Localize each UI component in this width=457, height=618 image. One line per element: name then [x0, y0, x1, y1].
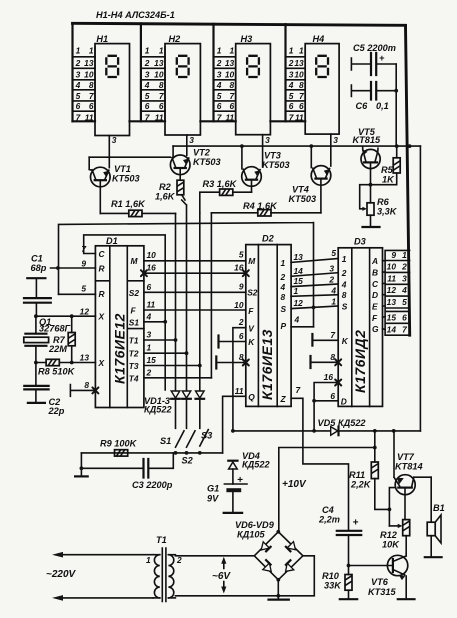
svg-text:C5 2200m: C5 2200m [353, 43, 396, 53]
svg-text:P: P [281, 321, 287, 331]
svg-text:8: 8 [299, 80, 304, 90]
wire bridge left to secondary [175, 555, 254, 557]
svg-text:13: 13 [294, 58, 304, 68]
svg-text:VT6: VT6 [371, 577, 389, 587]
svg-text:10: 10 [225, 70, 235, 80]
resistor R5 1K [371, 146, 397, 185]
svg-text:X: X [98, 312, 105, 322]
svg-text:KT503: KT503 [262, 160, 290, 170]
svg-text:2,2K: 2,2K [350, 480, 372, 490]
svg-text:22p: 22p [48, 406, 65, 416]
svg-text:5: 5 [289, 91, 294, 101]
svg-text:7: 7 [76, 113, 81, 123]
svg-text:T3: T3 [129, 361, 139, 371]
svg-text:6: 6 [239, 331, 244, 341]
wire D1.11 F to D2.10 F [144, 309, 246, 311]
svg-text:2: 2 [288, 58, 294, 68]
transistor VT2 KT503 [170, 155, 190, 175]
svg-text:7: 7 [145, 113, 150, 123]
svg-text:S: S [281, 304, 287, 314]
wire main horizontal rail y146 [173, 145, 420, 147]
svg-text:S2: S2 [247, 288, 258, 298]
svg-text:R: R [99, 289, 105, 299]
svg-text:11: 11 [225, 113, 234, 123]
svg-text:1: 1 [342, 254, 347, 264]
transformer T1 secondary winding [168, 554, 175, 556]
tick D3 pin8 [309, 356, 311, 368]
svg-text:К176ИД2: К176ИД2 [352, 330, 368, 393]
svg-text:Z: Z [280, 394, 287, 404]
bridge rectifier VD6-VD9 [254, 532, 303, 580]
svg-text:VT4: VT4 [292, 185, 309, 195]
svg-text:T4: T4 [129, 373, 139, 383]
svg-text:КД522: КД522 [242, 460, 271, 470]
svg-text:3: 3 [112, 135, 117, 145]
svg-text:9V: 9V [207, 494, 219, 504]
svg-text:KT814: KT814 [395, 462, 423, 472]
svg-text:F: F [131, 306, 137, 316]
svg-text:12: 12 [387, 285, 397, 295]
svg-text:4: 4 [280, 282, 286, 292]
svg-text:4: 4 [341, 280, 347, 290]
switch S2 [187, 431, 196, 447]
transformer T1 primary winding [153, 554, 160, 556]
wire D2.15 to D3.2 [291, 284, 338, 287]
svg-text:3: 3 [189, 135, 194, 145]
svg-text:7: 7 [330, 330, 335, 340]
svg-text:32768Г: 32768Г [39, 324, 71, 334]
svg-text:7: 7 [230, 91, 235, 101]
svg-text:S: S [342, 302, 348, 312]
svg-text:3: 3 [289, 70, 294, 80]
wire D1.4 S1 stub [144, 321, 165, 323]
display H2 body [165, 44, 200, 135]
svg-text:2,2m: 2,2m [318, 515, 340, 525]
svg-text:~6V: ~6V [212, 571, 231, 582]
svg-text:G: G [372, 324, 379, 334]
diode VD9 [286, 563, 294, 571]
wire chain R1 to VD1 [175, 213, 177, 391]
svg-text:10: 10 [147, 250, 157, 260]
svg-text:6: 6 [159, 101, 164, 111]
svg-text:11: 11 [147, 300, 156, 310]
svg-text:3: 3 [333, 135, 338, 145]
diode VD3 KD522 [196, 391, 205, 398]
svg-text:KT503: KT503 [289, 194, 317, 204]
svg-text:C6: C6 [356, 101, 369, 111]
svg-text:G1: G1 [207, 484, 219, 494]
svg-text:Н1-Н4 АЛС324Б-1: Н1-Н4 АЛС324Б-1 [96, 10, 175, 20]
svg-text:7: 7 [217, 113, 222, 123]
ground bridge bottom [277, 580, 279, 596]
svg-text:VT3: VT3 [264, 151, 281, 161]
svg-text:2: 2 [216, 58, 222, 68]
svg-text:8: 8 [330, 352, 335, 362]
svg-text:S3: S3 [201, 431, 212, 441]
svg-text:R6: R6 [377, 197, 390, 207]
svg-text:K: K [248, 337, 255, 347]
transistor VT1 KT503 [91, 167, 111, 187]
svg-text:2: 2 [144, 58, 150, 68]
svg-text:11: 11 [235, 386, 244, 396]
svg-text:1: 1 [299, 46, 304, 56]
svg-text:10: 10 [294, 70, 304, 80]
display H3 pin table [235, 47, 237, 121]
svg-text:+10V: +10V [282, 479, 307, 490]
svg-text:8: 8 [84, 380, 89, 390]
svg-text:1: 1 [331, 297, 336, 307]
svg-text:13: 13 [225, 58, 235, 68]
svg-text:15: 15 [147, 355, 157, 365]
wire mains bottom with arrow [62, 597, 153, 599]
svg-text:7: 7 [89, 91, 94, 101]
svg-text:16: 16 [147, 263, 157, 273]
svg-text:5: 5 [81, 284, 86, 294]
svg-text:5: 5 [76, 91, 81, 101]
svg-text:1: 1 [289, 46, 294, 56]
svg-text:R3 1,6K: R3 1,6K [203, 179, 238, 189]
tick D3 pin7 K [311, 334, 313, 346]
wire D1 pin7 C bracket [84, 235, 166, 390]
svg-text:13: 13 [80, 353, 90, 363]
svg-text:2: 2 [401, 262, 407, 272]
svg-text:10: 10 [234, 300, 244, 310]
svg-text:К176ИЕ12: К176ИЕ12 [112, 313, 128, 384]
svg-text:9: 9 [239, 282, 244, 292]
svg-text:КД105: КД105 [237, 530, 266, 540]
wire D1.1 T2 [144, 352, 187, 354]
svg-text:13: 13 [294, 252, 304, 262]
wire battery rail y431 [233, 430, 421, 432]
wires D3 outputs to table [383, 261, 386, 330]
svg-text:8: 8 [281, 292, 286, 302]
display block borders [71, 23, 73, 121]
wire C5/C6 right vertical to rail [395, 64, 398, 146]
svg-text:4: 4 [144, 80, 150, 90]
wire +10V rail [279, 448, 375, 532]
display H1 digit 8 [106, 56, 118, 77]
svg-text:6: 6 [147, 282, 152, 292]
svg-text:68p: 68p [31, 263, 47, 273]
transistor VT3 KT503 [242, 167, 262, 187]
svg-text:4: 4 [330, 285, 336, 295]
svg-text:4: 4 [75, 80, 81, 90]
svg-text:7: 7 [296, 385, 301, 395]
wire D2.14 to D3.3 [291, 273, 338, 277]
svg-text:11: 11 [155, 113, 164, 123]
svg-text:~220V: ~220V [46, 569, 77, 580]
wire mains top with arrow [62, 554, 153, 556]
svg-text:Q: Q [248, 392, 255, 402]
display H3 digit 8 [247, 56, 259, 77]
svg-text:+: + [379, 53, 385, 63]
wire H4 pin 3 stub [330, 134, 332, 166]
wire D2.4 P tap [291, 326, 313, 328]
diode VD6 [261, 542, 269, 550]
svg-text:3: 3 [76, 70, 81, 80]
svg-text:S2: S2 [182, 456, 194, 466]
svg-text:M: M [131, 256, 139, 266]
svg-text:3: 3 [329, 263, 334, 273]
svg-text:1K: 1K [382, 175, 395, 185]
svg-text:D2: D2 [262, 234, 275, 244]
diode VD2 KD522 [182, 391, 191, 398]
svg-text:11: 11 [387, 273, 396, 283]
svg-text:R11: R11 [349, 470, 365, 480]
svg-text:1: 1 [294, 286, 299, 296]
svg-text:3: 3 [217, 70, 222, 80]
diode VD7 [287, 542, 295, 550]
svg-text:7: 7 [299, 91, 304, 101]
svg-text:12: 12 [294, 298, 304, 308]
resistor R11 2,2K [375, 431, 390, 510]
svg-text:1: 1 [76, 46, 81, 56]
wire D3 pin6 D [314, 400, 338, 402]
svg-text:3: 3 [147, 330, 152, 340]
svg-text:11: 11 [85, 113, 94, 123]
wire chain R4 to T4 [210, 213, 212, 378]
svg-text:1,6K: 1,6K [155, 192, 176, 202]
svg-text:KT315: KT315 [368, 587, 396, 597]
svg-text:1: 1 [402, 250, 407, 260]
display H2 digit 8 [177, 56, 189, 77]
transistor VT4 KT503 [311, 166, 331, 186]
wire D2 pin7 Z [291, 398, 348, 530]
wire D1.10 M to D2.5 M [144, 260, 246, 262]
svg-text:6: 6 [299, 101, 304, 111]
wire top long y223 [59, 223, 314, 327]
wire D2.1 to D3.4 [291, 295, 338, 297]
svg-text:2: 2 [328, 275, 334, 285]
svg-text:C1: C1 [31, 254, 43, 264]
svg-text:1: 1 [159, 46, 164, 56]
svg-text:2: 2 [280, 272, 286, 282]
wire D1 pin9 R [51, 267, 96, 269]
svg-text:C3 2200p: C3 2200p [132, 480, 173, 490]
svg-text:D: D [372, 290, 378, 300]
svg-text:VT2: VT2 [193, 148, 211, 158]
svg-text:10: 10 [154, 70, 164, 80]
wire right rail drop x420 [419, 146, 421, 431]
svg-text:10: 10 [84, 70, 94, 80]
wire D2.12 S to D3.1 S [291, 306, 338, 309]
wire D1 pin13 X with R8 [36, 362, 96, 364]
svg-text:R: R [99, 264, 105, 274]
svg-text:5: 5 [402, 297, 407, 307]
diode VD8 [263, 563, 271, 571]
svg-text:T2: T2 [129, 349, 139, 359]
wire D2 pin11 Q [223, 396, 246, 453]
wire D1.16 to D2.16 [144, 272, 246, 274]
svg-text:4: 4 [146, 311, 152, 321]
switch S1 [176, 431, 185, 447]
svg-text:H2: H2 [169, 34, 182, 44]
svg-text:R9 100K: R9 100K [100, 439, 138, 449]
display H1 body [95, 44, 130, 136]
svg-text:KT815: KT815 [353, 135, 381, 145]
display H2 pin table [164, 47, 166, 121]
svg-text:B1: B1 [433, 503, 445, 513]
display block bottom edges [73, 120, 306, 122]
svg-text:A: A [371, 256, 378, 266]
display H4 body [305, 44, 339, 135]
svg-text:22M: 22M [48, 344, 67, 354]
svg-text:H4: H4 [313, 34, 325, 44]
svg-text:6: 6 [402, 313, 407, 323]
svg-text:8: 8 [89, 80, 94, 90]
svg-text:6: 6 [330, 391, 335, 401]
resistor R8 510K [46, 359, 59, 365]
wire H3 pin 3 stub [262, 135, 264, 167]
svg-text:VT1: VT1 [114, 164, 131, 174]
svg-text:6: 6 [89, 101, 94, 111]
svg-text:9: 9 [81, 259, 86, 269]
svg-text:10K: 10K [382, 540, 400, 550]
svg-text:33K: 33K [324, 581, 342, 591]
wire D1 pin12 X [36, 315, 96, 317]
svg-text:16: 16 [324, 372, 334, 382]
transformer T1 core [162, 548, 166, 602]
svg-text:15: 15 [387, 313, 397, 323]
svg-text:10: 10 [387, 262, 397, 272]
ground under R6 [363, 226, 380, 228]
capacitor C6 [351, 85, 396, 97]
svg-text:1: 1 [147, 343, 152, 353]
svg-text:11: 11 [295, 113, 304, 123]
svg-text:2: 2 [146, 367, 152, 377]
display H4 digit 8 [316, 56, 328, 77]
svg-text:D3: D3 [354, 237, 366, 247]
svg-text:R5: R5 [381, 165, 394, 175]
svg-text:R12: R12 [380, 530, 398, 540]
svg-text:H1: H1 [96, 34, 108, 44]
wire D1 pin8 [70, 385, 95, 397]
svg-text:5: 5 [239, 250, 244, 260]
capacitor C2 22p [35, 363, 37, 403]
display assembly frame top line [73, 23, 406, 25]
svg-text:F: F [372, 313, 378, 323]
wire chain R2 to VD2 [182, 200, 187, 391]
svg-text:4: 4 [216, 80, 222, 90]
svg-text:15: 15 [294, 276, 304, 286]
svg-text:S1: S1 [160, 436, 171, 446]
svg-text:T1: T1 [129, 336, 139, 346]
svg-text:7: 7 [289, 113, 294, 123]
svg-text:S1: S1 [129, 317, 140, 327]
svg-text:13: 13 [154, 58, 164, 68]
svg-text:8: 8 [230, 80, 235, 90]
svg-text:1: 1 [217, 46, 222, 56]
svg-text:R2: R2 [159, 182, 172, 192]
svg-text:R8 510K: R8 510K [38, 367, 76, 377]
switch S3 [200, 430, 209, 446]
svg-text:S2: S2 [129, 288, 140, 298]
svg-text:6: 6 [145, 101, 150, 111]
svg-text:3: 3 [265, 135, 270, 145]
svg-text:C: C [372, 279, 379, 289]
svg-text:+: + [353, 518, 359, 529]
wire D1.2 T4 [144, 377, 212, 379]
wire chain R3 to VD3 [199, 213, 201, 391]
svg-text:K: K [342, 336, 349, 346]
svg-text:12: 12 [80, 307, 90, 317]
svg-text:14: 14 [387, 324, 397, 334]
svg-text:6: 6 [217, 101, 222, 111]
svg-text:2: 2 [341, 268, 347, 278]
svg-text:К176ИЕ13: К176ИЕ13 [259, 329, 275, 400]
wire H1 pin 3 stub [108, 136, 110, 168]
diode VD1 KD522 [171, 391, 180, 398]
svg-text:2: 2 [75, 58, 81, 68]
svg-text:7: 7 [402, 324, 407, 334]
svg-text:1: 1 [89, 46, 94, 56]
capacitor C3 2200p [81, 453, 173, 476]
svg-text:5: 5 [217, 91, 222, 101]
svg-text:14: 14 [294, 266, 304, 276]
svg-text:3,3K: 3,3K [377, 207, 398, 217]
display H3 body [236, 44, 271, 135]
svg-text:R1 1,6K: R1 1,6K [111, 199, 146, 209]
svg-text:6: 6 [289, 101, 294, 111]
wire D3 pin16 [314, 383, 338, 431]
svg-text:T1: T1 [156, 535, 167, 545]
wire D2.13 to D3.5 [291, 259, 338, 263]
svg-text:5: 5 [331, 248, 336, 258]
svg-text:M: M [248, 256, 256, 266]
svg-text:8: 8 [342, 290, 347, 300]
IC D3 output pin table [385, 250, 410, 335]
svg-text:8: 8 [159, 80, 164, 90]
svg-text:4: 4 [401, 285, 407, 295]
wire D1 pin5 R [59, 293, 96, 295]
svg-text:2: 2 [238, 317, 244, 327]
wire switch common [81, 452, 222, 454]
svg-text:C: C [99, 249, 106, 259]
svg-text:5: 5 [145, 91, 150, 101]
wire D1.15 T3 [144, 365, 200, 367]
svg-text:9: 9 [391, 250, 396, 260]
tick D2 pin8 [215, 357, 217, 369]
svg-text:6: 6 [76, 101, 81, 111]
wire D2 pin2 V [233, 328, 246, 431]
svg-text:H3: H3 [241, 34, 253, 44]
tick D2 pin6 K [217, 336, 219, 348]
svg-text:7: 7 [159, 91, 164, 101]
svg-text:1: 1 [230, 46, 235, 56]
svg-text:1: 1 [146, 555, 151, 565]
svg-text:6: 6 [230, 101, 235, 111]
capacitor C5 [351, 58, 396, 70]
svg-text:VT7: VT7 [397, 452, 415, 462]
power rail right thick [406, 26, 410, 336]
svg-text:13: 13 [84, 58, 94, 68]
svg-text:C4: C4 [322, 505, 334, 515]
svg-text:R10: R10 [322, 571, 340, 581]
svg-text:X: X [98, 358, 105, 368]
svg-text:3: 3 [145, 70, 150, 80]
svg-text:F: F [248, 306, 254, 316]
wire collector rail VT1 segment [89, 156, 170, 158]
svg-text:KT503: KT503 [112, 174, 140, 184]
display H4 pin table [304, 47, 306, 121]
svg-text:E: E [372, 302, 378, 312]
svg-text:D: D [341, 396, 347, 406]
svg-text:0,1: 0,1 [376, 101, 389, 111]
svg-text:3: 3 [402, 273, 407, 283]
svg-text:КД522: КД522 [144, 405, 173, 415]
wire H2 pin 3 stub [186, 135, 188, 155]
svg-text:1: 1 [145, 46, 150, 56]
